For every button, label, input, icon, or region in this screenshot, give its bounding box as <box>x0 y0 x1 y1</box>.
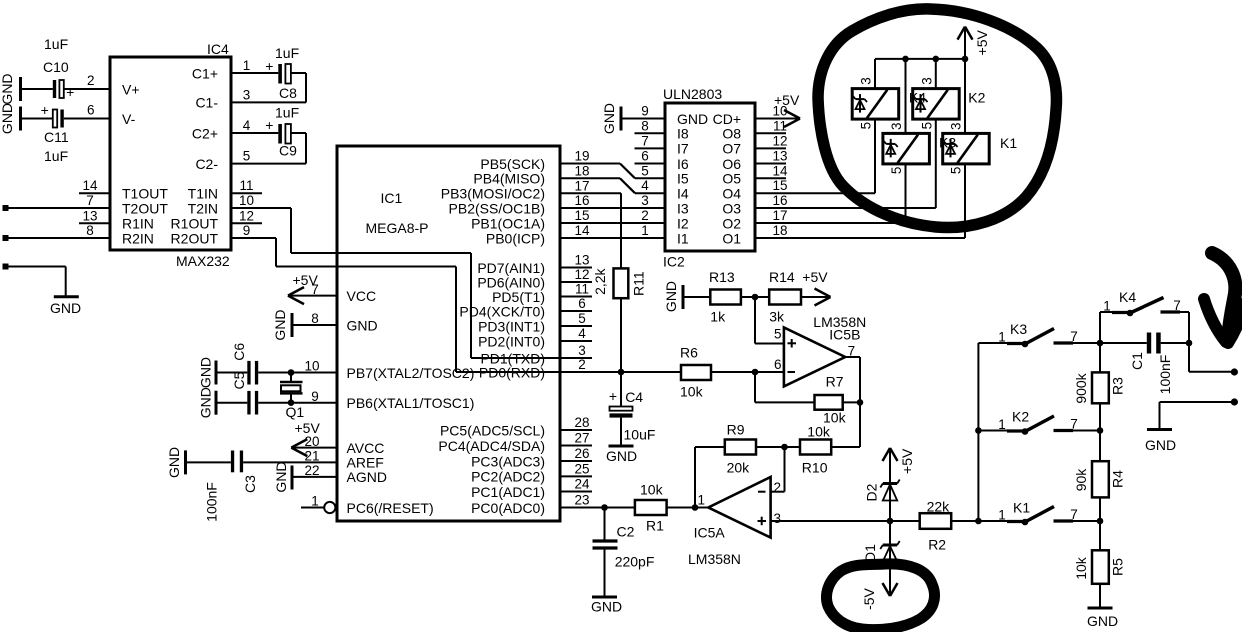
svg-text:9: 9 <box>243 223 251 238</box>
svg-text:-5V: -5V <box>861 587 877 609</box>
svg-text:10: 10 <box>304 359 319 374</box>
svg-text:GND: GND <box>347 317 378 333</box>
svg-text:7: 7 <box>1070 329 1078 344</box>
svg-text:R11: R11 <box>631 271 647 296</box>
svg-text:1: 1 <box>641 223 649 238</box>
svg-text:+5V: +5V <box>899 448 915 474</box>
svg-text:14: 14 <box>772 163 788 178</box>
svg-text:R1: R1 <box>646 518 664 534</box>
svg-text:14: 14 <box>82 178 98 193</box>
svg-text:O2: O2 <box>722 215 741 231</box>
svg-text:+: + <box>66 84 74 100</box>
svg-text:GND: GND <box>272 309 288 340</box>
svg-text:1: 1 <box>1103 299 1111 314</box>
svg-text:13: 13 <box>82 208 97 223</box>
svg-text:3: 3 <box>774 511 782 526</box>
svg-text:C8: C8 <box>279 85 297 101</box>
svg-text:PB3(MOSI/OC2): PB3(MOSI/OC2) <box>441 186 545 202</box>
svg-text:10: 10 <box>239 193 254 208</box>
svg-text:1: 1 <box>998 330 1006 345</box>
svg-text:10k: 10k <box>807 424 831 440</box>
svg-text:GND: GND <box>663 281 679 312</box>
svg-text:22: 22 <box>304 463 319 478</box>
svg-text:T2OUT: T2OUT <box>122 200 168 216</box>
svg-text:O6: O6 <box>722 156 741 172</box>
svg-text:5: 5 <box>243 149 251 164</box>
svg-text:5: 5 <box>919 122 934 130</box>
svg-text:17: 17 <box>574 178 589 193</box>
svg-text:13: 13 <box>574 253 589 268</box>
svg-text:220pF: 220pF <box>615 554 655 570</box>
svg-text:900k: 900k <box>1073 372 1089 403</box>
svg-text:R7: R7 <box>826 374 844 390</box>
svg-text:9: 9 <box>311 389 319 404</box>
svg-text:I3: I3 <box>677 200 689 216</box>
svg-text:R13: R13 <box>709 269 735 285</box>
svg-text:GND: GND <box>1087 613 1118 629</box>
svg-text:O3: O3 <box>722 200 741 216</box>
svg-text:PC0(ADC0): PC0(ADC0) <box>471 500 545 516</box>
svg-text:11: 11 <box>239 178 253 193</box>
svg-text:+5V: +5V <box>802 269 828 285</box>
svg-text:GND: GND <box>198 357 214 388</box>
svg-text:3: 3 <box>919 77 934 85</box>
svg-text:VCC: VCC <box>347 288 377 304</box>
svg-text:I1: I1 <box>677 230 689 246</box>
svg-text:PC1(ADC1): PC1(ADC1) <box>471 484 545 500</box>
svg-text:IC2: IC2 <box>663 254 685 270</box>
svg-text:GND: GND <box>1145 437 1176 453</box>
svg-text:5: 5 <box>641 163 649 178</box>
svg-text:R1OUT: R1OUT <box>171 216 219 232</box>
svg-text:O7: O7 <box>722 141 741 157</box>
svg-text:R14: R14 <box>769 269 795 285</box>
svg-text:C11: C11 <box>44 129 69 145</box>
svg-text:7: 7 <box>1070 417 1078 432</box>
svg-text:11: 11 <box>575 282 589 297</box>
svg-text:20: 20 <box>304 434 319 449</box>
svg-text:10uF: 10uF <box>624 427 656 443</box>
svg-text:3: 3 <box>889 122 904 130</box>
svg-text:GND: GND <box>198 387 214 418</box>
svg-text:6: 6 <box>641 149 649 164</box>
svg-text:24: 24 <box>574 477 590 492</box>
svg-text:6: 6 <box>774 357 782 372</box>
svg-text:V-: V- <box>122 111 136 127</box>
svg-text:3: 3 <box>243 87 251 102</box>
svg-text:K2: K2 <box>968 90 985 106</box>
svg-text:10k: 10k <box>680 384 704 400</box>
svg-text:+5V: +5V <box>293 272 319 288</box>
svg-text:PB6(XTAL1/TOSC1): PB6(XTAL1/TOSC1) <box>347 395 475 411</box>
svg-text:25: 25 <box>574 462 589 477</box>
svg-text:GND: GND <box>0 73 15 104</box>
svg-text:PD0(RXD): PD0(RXD) <box>479 364 545 380</box>
svg-text:PC6(/RESET): PC6(/RESET) <box>347 500 434 516</box>
svg-text:16: 16 <box>772 193 787 208</box>
svg-text:K4: K4 <box>909 90 926 106</box>
svg-text:C3: C3 <box>242 475 258 493</box>
svg-text:+: + <box>41 102 49 118</box>
svg-text:8: 8 <box>86 223 94 238</box>
svg-text:19: 19 <box>574 149 589 164</box>
svg-text:AGND: AGND <box>347 469 387 485</box>
svg-text:T2IN: T2IN <box>188 200 218 216</box>
svg-text:C9: C9 <box>279 143 297 159</box>
svg-text:4: 4 <box>243 118 251 133</box>
svg-text:O1: O1 <box>722 230 741 246</box>
svg-text:IC5B: IC5B <box>829 327 860 343</box>
svg-text:5: 5 <box>774 327 782 342</box>
svg-text:5: 5 <box>889 167 904 175</box>
svg-text:D2: D2 <box>864 483 880 501</box>
svg-text:C1+: C1+ <box>192 65 218 81</box>
svg-text:IC1: IC1 <box>381 190 403 206</box>
svg-text:20k: 20k <box>727 460 751 476</box>
svg-text:K3: K3 <box>939 135 956 151</box>
svg-text:+5V: +5V <box>974 29 990 55</box>
svg-text:18: 18 <box>574 164 589 179</box>
svg-text:18: 18 <box>772 223 787 238</box>
svg-text:AVCC: AVCC <box>347 440 385 456</box>
svg-text:R1IN: R1IN <box>122 216 154 232</box>
svg-text:3: 3 <box>641 193 649 208</box>
svg-text:PB1(OC1A): PB1(OC1A) <box>471 215 545 231</box>
svg-text:90k: 90k <box>1073 468 1089 492</box>
svg-text:15: 15 <box>574 208 589 223</box>
svg-text:5: 5 <box>859 122 874 130</box>
svg-text:K3: K3 <box>1010 321 1027 337</box>
svg-text:PD2(INT0): PD2(INT0) <box>478 333 545 349</box>
svg-text:1k: 1k <box>710 308 726 324</box>
svg-text:GND: GND <box>591 599 622 615</box>
svg-text:PD4(XCK/T0): PD4(XCK/T0) <box>459 303 545 319</box>
svg-text:PB2(SS/OC1B): PB2(SS/OC1B) <box>449 200 545 216</box>
svg-text:10k: 10k <box>640 482 664 498</box>
svg-text:R9: R9 <box>727 422 745 438</box>
svg-text:PC2(ADC2): PC2(ADC2) <box>471 469 545 485</box>
svg-text:7: 7 <box>641 133 649 148</box>
svg-text:14: 14 <box>574 223 590 238</box>
svg-text:PC5(ADC5/SCL): PC5(ADC5/SCL) <box>440 422 545 438</box>
svg-text:2: 2 <box>641 208 649 223</box>
svg-text:+: + <box>265 117 273 133</box>
svg-text:6: 6 <box>578 296 586 311</box>
svg-text:1: 1 <box>998 508 1006 523</box>
svg-text:1uF: 1uF <box>275 45 299 61</box>
svg-text:6: 6 <box>87 103 95 118</box>
svg-text:100nF: 100nF <box>204 482 220 522</box>
svg-text:GND: GND <box>50 300 81 316</box>
svg-text:12: 12 <box>772 133 787 148</box>
svg-text:R3: R3 <box>1110 377 1126 395</box>
svg-text:K2: K2 <box>1012 409 1029 425</box>
svg-text:MAX232: MAX232 <box>176 253 230 269</box>
svg-text:7: 7 <box>86 193 94 208</box>
svg-text:K1: K1 <box>1013 500 1030 516</box>
svg-text:MEGA8-P: MEGA8-P <box>366 220 429 236</box>
svg-text:I5: I5 <box>677 171 689 187</box>
svg-text:3: 3 <box>949 122 964 130</box>
svg-text:O5: O5 <box>722 171 741 187</box>
svg-text:LM358N: LM358N <box>688 551 741 567</box>
svg-text:10k: 10k <box>1073 556 1089 580</box>
svg-text:9: 9 <box>641 104 649 119</box>
svg-text:V+: V+ <box>122 81 140 97</box>
svg-text:C2+: C2+ <box>192 125 218 141</box>
svg-text:R2OUT: R2OUT <box>171 230 219 246</box>
svg-text:IC5A: IC5A <box>694 525 726 541</box>
svg-text:R2: R2 <box>928 537 946 553</box>
svg-text:+5V: +5V <box>774 92 800 108</box>
svg-text:C4: C4 <box>625 389 643 405</box>
svg-text:O8: O8 <box>722 126 741 142</box>
svg-text:C1-: C1- <box>195 95 218 111</box>
svg-text:28: 28 <box>574 415 589 430</box>
svg-text:+: + <box>265 58 273 74</box>
svg-text:GND: GND <box>273 461 289 492</box>
svg-text:GND: GND <box>166 447 182 478</box>
svg-text:7: 7 <box>1173 298 1181 313</box>
svg-text:26: 26 <box>574 446 589 461</box>
svg-text:15: 15 <box>772 178 787 193</box>
svg-text:C2: C2 <box>617 524 635 540</box>
svg-text:5: 5 <box>949 167 964 175</box>
svg-text:I2: I2 <box>677 215 689 231</box>
svg-text:4: 4 <box>641 178 649 193</box>
svg-text:PB0(ICP): PB0(ICP) <box>486 230 545 246</box>
svg-text:PB5(SCK): PB5(SCK) <box>480 156 545 172</box>
svg-text:R6: R6 <box>680 345 698 361</box>
svg-text:I7: I7 <box>677 141 689 157</box>
svg-text:17: 17 <box>772 208 787 223</box>
svg-text:GND: GND <box>0 103 15 134</box>
svg-text:100nF: 100nF <box>1157 355 1173 395</box>
svg-text:PC4(ADC4/SDA): PC4(ADC4/SDA) <box>438 438 545 454</box>
svg-text:I8: I8 <box>677 126 689 142</box>
svg-text:8: 8 <box>311 311 319 326</box>
svg-text:+: + <box>609 388 617 404</box>
svg-text:2,2k: 2,2k <box>592 267 608 294</box>
svg-text:C2-: C2- <box>195 156 218 172</box>
svg-text:R2IN: R2IN <box>122 230 154 246</box>
svg-text:1: 1 <box>698 493 706 508</box>
svg-text:2: 2 <box>578 357 586 372</box>
svg-text:T1OUT: T1OUT <box>122 186 168 202</box>
svg-text:+5V: +5V <box>295 420 321 436</box>
svg-text:C6: C6 <box>231 343 247 361</box>
svg-text:C1: C1 <box>1129 352 1145 370</box>
svg-text:2: 2 <box>87 73 95 88</box>
svg-text:R10: R10 <box>802 460 828 476</box>
svg-text:5: 5 <box>578 311 586 326</box>
svg-text:3: 3 <box>578 343 586 358</box>
svg-text:1: 1 <box>998 417 1006 432</box>
svg-text:3: 3 <box>859 77 874 85</box>
svg-text:PC3(ADC3): PC3(ADC3) <box>471 453 545 469</box>
svg-text:IC4: IC4 <box>207 41 229 57</box>
svg-text:2: 2 <box>774 480 782 495</box>
svg-text:C5: C5 <box>231 371 247 389</box>
svg-text:12: 12 <box>239 208 254 223</box>
svg-text:ULN2803: ULN2803 <box>663 86 722 102</box>
svg-text:1uF: 1uF <box>44 148 68 164</box>
svg-text:GND: GND <box>677 111 708 127</box>
svg-text:1uF: 1uF <box>44 36 68 52</box>
svg-text:PB7(XTAL2/TOSC2): PB7(XTAL2/TOSC2) <box>347 365 475 381</box>
svg-text:13: 13 <box>772 149 787 164</box>
svg-text:CD+: CD+ <box>713 111 741 127</box>
svg-text:1: 1 <box>311 494 319 509</box>
svg-text:4: 4 <box>578 326 586 341</box>
svg-text:I6: I6 <box>677 156 689 172</box>
svg-text:1: 1 <box>243 58 251 73</box>
svg-text:23: 23 <box>574 493 589 508</box>
svg-text:1uF: 1uF <box>275 105 299 121</box>
svg-text:27: 27 <box>574 431 589 446</box>
svg-text:I4: I4 <box>677 186 689 202</box>
svg-text:22k: 22k <box>927 499 951 515</box>
svg-text:K1: K1 <box>1000 135 1017 151</box>
svg-text:GND: GND <box>601 103 617 134</box>
svg-text:12: 12 <box>574 267 589 282</box>
svg-text:PB4(MISO): PB4(MISO) <box>473 171 545 187</box>
svg-text:PD3(INT1): PD3(INT1) <box>478 318 545 334</box>
svg-text:Q1: Q1 <box>286 404 305 420</box>
svg-text:8: 8 <box>641 118 649 133</box>
svg-text:K4: K4 <box>1119 289 1136 305</box>
svg-text:3k: 3k <box>769 308 785 324</box>
svg-text:C10: C10 <box>43 59 69 75</box>
svg-text:GND: GND <box>606 448 637 464</box>
svg-text:R5: R5 <box>1110 558 1126 576</box>
svg-text:16: 16 <box>574 193 589 208</box>
svg-text:7: 7 <box>1070 507 1078 522</box>
svg-text:O4: O4 <box>722 186 741 202</box>
svg-text:R4: R4 <box>1110 470 1126 488</box>
svg-text:T1IN: T1IN <box>188 186 218 202</box>
